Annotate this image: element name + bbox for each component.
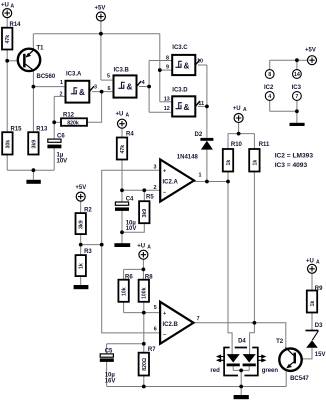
svg-text:1: 1 — [199, 172, 202, 178]
svg-text:10V: 10V — [57, 159, 68, 165]
svg-text:14: 14 — [294, 72, 300, 78]
svg-text:BC547: BC547 — [290, 376, 309, 382]
svg-text:12: 12 — [164, 106, 170, 112]
svg-text:1: 1 — [60, 80, 63, 86]
svg-text:R13: R13 — [36, 126, 48, 132]
svg-text:IC2: IC2 — [264, 85, 274, 91]
svg-text:2: 2 — [60, 91, 63, 97]
svg-text:A: A — [126, 113, 130, 119]
svg-text:R2: R2 — [84, 208, 92, 214]
svg-text:1N4148: 1N4148 — [177, 154, 199, 160]
svg-text:IC2.A: IC2.A — [163, 180, 179, 186]
svg-text:+U: +U — [306, 259, 314, 265]
svg-text:6: 6 — [108, 86, 111, 92]
svg-text:2: 2 — [154, 185, 157, 191]
svg-text:30k: 30k — [5, 140, 11, 149]
svg-text:IC2 = LM393: IC2 = LM393 — [275, 153, 314, 160]
svg-text:5: 5 — [107, 74, 110, 80]
svg-text:7: 7 — [295, 94, 298, 100]
svg-text:D3: D3 — [315, 323, 323, 329]
svg-text:A: A — [147, 244, 151, 250]
svg-text:−: − — [163, 190, 166, 196]
svg-text:D2: D2 — [195, 132, 203, 138]
svg-text:15V: 15V — [315, 352, 326, 358]
svg-text:47k: 47k — [5, 35, 11, 44]
svg-text:+5V: +5V — [95, 6, 106, 12]
svg-text:8: 8 — [166, 55, 169, 61]
svg-text:8: 8 — [268, 72, 271, 78]
svg-text:5: 5 — [154, 305, 157, 311]
svg-text:R9: R9 — [315, 286, 323, 292]
svg-text:R7: R7 — [148, 347, 156, 353]
svg-text:+U: +U — [116, 112, 124, 118]
svg-text:T2: T2 — [276, 339, 284, 345]
svg-text:R14: R14 — [10, 22, 22, 28]
svg-text:IC3.B: IC3.B — [114, 68, 130, 74]
svg-text:−: − — [163, 333, 166, 339]
svg-text:4: 4 — [142, 80, 145, 86]
svg-text:13: 13 — [164, 97, 170, 103]
svg-text:820Ω: 820Ω — [142, 358, 148, 371]
svg-text:1k: 1k — [226, 160, 232, 166]
svg-text:+: + — [163, 311, 166, 317]
svg-text:IC3: IC3 — [292, 85, 302, 91]
svg-text:3k9: 3k9 — [31, 140, 37, 149]
svg-text:R3: R3 — [84, 249, 92, 255]
svg-text:R5: R5 — [146, 195, 154, 201]
svg-text:R11: R11 — [259, 142, 270, 148]
svg-text:red: red — [210, 368, 220, 374]
svg-text:IC3.C: IC3.C — [172, 45, 188, 51]
svg-text:T1: T1 — [37, 46, 45, 52]
svg-text:10: 10 — [197, 59, 203, 65]
svg-text:A: A — [316, 260, 320, 266]
svg-text:+U: +U — [1, 3, 9, 9]
svg-text:6: 6 — [154, 327, 157, 333]
svg-text:R8: R8 — [145, 275, 153, 281]
svg-text:820k: 820k — [67, 120, 79, 126]
svg-text:9: 9 — [166, 65, 169, 71]
svg-text:1k: 1k — [79, 263, 85, 269]
svg-text:IC3.D: IC3.D — [172, 88, 188, 94]
svg-text:16V: 16V — [105, 378, 116, 384]
svg-text:IC2.B: IC2.B — [163, 322, 179, 328]
svg-text:+U: +U — [233, 106, 241, 112]
svg-text:R12: R12 — [63, 113, 75, 119]
svg-text:&: & — [127, 82, 133, 91]
svg-text:&: & — [79, 88, 85, 97]
svg-text:+U: +U — [137, 243, 145, 249]
svg-text:R6: R6 — [125, 275, 133, 281]
svg-text:3k9: 3k9 — [142, 209, 148, 218]
svg-text:green: green — [262, 368, 279, 374]
svg-text:IC3.A: IC3.A — [66, 72, 82, 78]
svg-text:3: 3 — [94, 85, 97, 91]
svg-text:C6: C6 — [57, 134, 65, 140]
svg-text:A: A — [243, 107, 247, 113]
svg-text:1k: 1k — [252, 160, 258, 166]
svg-text:+5V: +5V — [305, 48, 316, 54]
svg-text:10V: 10V — [126, 226, 137, 232]
svg-text:7: 7 — [197, 316, 200, 322]
svg-text:47k: 47k — [120, 145, 126, 154]
svg-text:D4: D4 — [238, 338, 246, 344]
svg-text:10k: 10k — [122, 287, 128, 296]
svg-text:BC560: BC560 — [37, 74, 56, 80]
svg-text:11: 11 — [198, 101, 204, 107]
svg-text:R10: R10 — [231, 142, 243, 148]
svg-text:4: 4 — [268, 94, 271, 100]
svg-text:&: & — [184, 61, 190, 70]
svg-text:R15: R15 — [11, 126, 23, 132]
svg-text:R4: R4 — [126, 132, 134, 138]
svg-text:&: & — [184, 103, 190, 112]
svg-text:C5: C5 — [105, 348, 113, 354]
svg-text:3: 3 — [154, 165, 157, 171]
svg-text:100k: 100k — [142, 287, 148, 299]
svg-text:C4: C4 — [126, 197, 134, 203]
svg-text:1k: 1k — [310, 301, 316, 307]
svg-text:+5V: +5V — [75, 185, 86, 191]
svg-text:+: + — [163, 168, 166, 174]
svg-text:IC3 = 4093: IC3 = 4093 — [275, 162, 308, 169]
svg-text:3k9: 3k9 — [79, 220, 85, 229]
svg-text:A: A — [11, 4, 15, 10]
